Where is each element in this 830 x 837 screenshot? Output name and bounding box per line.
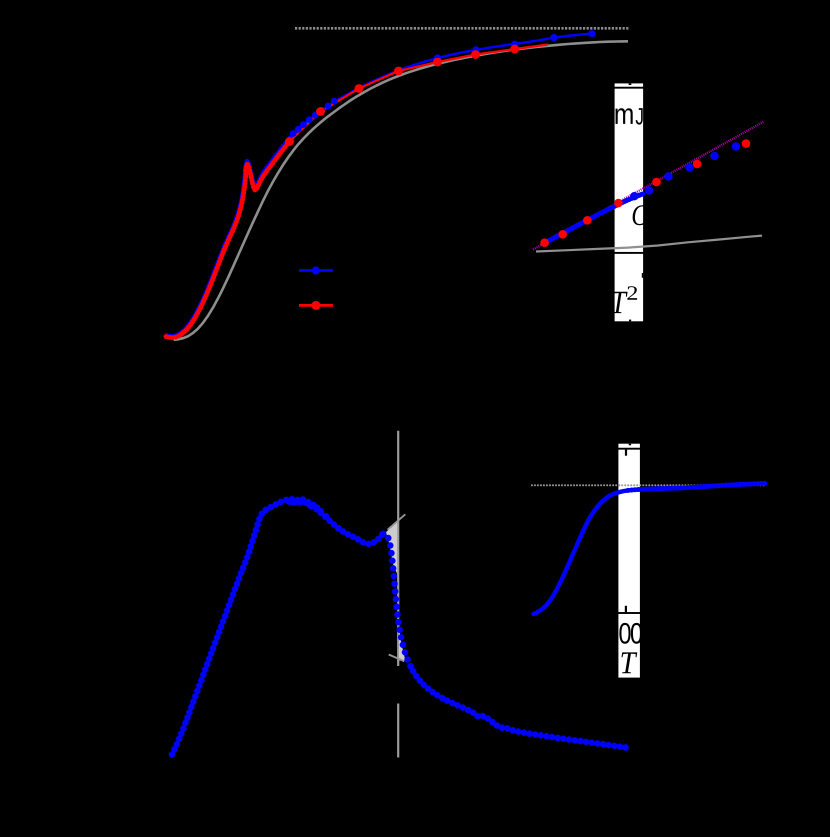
equal-area fill top bbox=[386, 522, 398, 575]
vertical transition line (lower segment) bbox=[397, 704, 399, 758]
lower inset xlabel italic T bbox=[622, 652, 638, 673]
blue curve line bbox=[290, 34, 592, 138]
upper inset ylabel white box bbox=[615, 83, 644, 321]
vertical transition line (upper segment) bbox=[397, 431, 399, 666]
upper inset bottom-edge text fragment bbox=[629, 320, 631, 322]
upper inset blue markers bbox=[630, 142, 740, 200]
upper inset dense blue data rope bbox=[545, 194, 643, 243]
upper inset xlabel T squared bbox=[612, 292, 627, 313]
dashed Dulong-Petit limit line bbox=[295, 27, 629, 30]
upper inset top-edge tick fragment bbox=[629, 83, 632, 85]
lower inset gray dotted saturation line bbox=[532, 484, 765, 486]
ideal-step slanted segment top bbox=[388, 514, 406, 529]
lower panel blue dotted data curve (tail) bbox=[411, 666, 630, 748]
gray phonon curve bbox=[174, 41, 629, 340]
equal-area fill bottom bbox=[399, 622, 406, 661]
upper inset label mJ fragment bbox=[616, 108, 633, 124]
lower inset top tick bbox=[625, 450, 627, 456]
red dense data band bbox=[166, 142, 290, 338]
upper inset tick-label fragment (40) bbox=[642, 273, 643, 278]
lower inset bottom tick bbox=[625, 606, 627, 613]
blue cluster markers bbox=[290, 98, 338, 137]
lower panel scatter noise dots bbox=[286, 498, 330, 520]
lower inset frame bbox=[535, 449, 765, 613]
upper inset italic C fragment bbox=[633, 205, 648, 225]
blue dense curve low-T band bbox=[167, 138, 290, 337]
upper inset gray line bbox=[536, 236, 762, 252]
legend blue entry bbox=[299, 267, 333, 275]
lower inset xlabel white box bbox=[618, 444, 640, 678]
upper inset purple dashed fit line bbox=[533, 122, 764, 250]
red curve line bbox=[290, 45, 549, 142]
ideal-step slanted segment bottom bbox=[389, 655, 405, 662]
blue sparse markers bbox=[434, 30, 596, 62]
upper inset frame (black, visible only over white box) bbox=[536, 88, 765, 253]
upper inset red markers bbox=[540, 139, 750, 247]
lower panel blue dotted data curve (transition drop) bbox=[383, 533, 410, 666]
lower panel blue dotted data curve (rise and hump) bbox=[172, 499, 383, 754]
lower inset tick label 00 fragment bbox=[619, 623, 630, 644]
legend red entry bbox=[299, 301, 333, 310]
red sparse markers bbox=[285, 45, 519, 146]
lower inset blue entropy curve bbox=[534, 483, 766, 614]
lower inset top-edge fragment bbox=[629, 444, 631, 446]
